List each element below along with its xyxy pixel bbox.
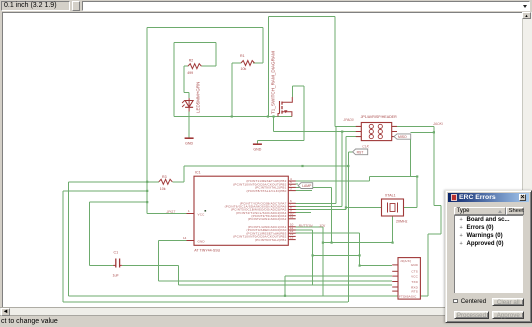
svg-text:499: 499 — [187, 71, 193, 75]
svg-text:R3: R3 — [162, 175, 167, 179]
svg-text:JPGT: JPGT — [166, 210, 177, 214]
svg-text:T1_SWITCH_RAM_DIAGRAM: T1_SWITCH_RAM_DIAGRAM — [271, 51, 276, 114]
svg-text:R1: R1 — [240, 54, 245, 58]
svg-text:(PCINT8/XTAL1/CLKI)PB0: (PCINT8/XTAL1/CLKI)PB0 — [246, 189, 286, 193]
svg-text:LAMP: LAMP — [302, 184, 312, 188]
svg-text:LED5MM+GRN: LED5MM+GRN — [196, 82, 201, 113]
svg-text:(PCINT2/AIN1/ADC2)PA2: (PCINT2/AIN1/ADC2)PA2 — [248, 217, 287, 221]
svg-text:RST: RST — [357, 150, 364, 154]
svg-text:11: 11 — [290, 215, 293, 219]
svg-text:1uF: 1uF — [113, 274, 120, 278]
svg-text:BUTTON: BUTTON — [299, 224, 313, 228]
svg-text:RTS: RTS — [411, 289, 418, 293]
svg-text:JAOKI: JAOKI — [432, 122, 443, 126]
svg-text:FTDIBASIC: FTDIBASIC — [399, 295, 417, 299]
svg-text:GND: GND — [411, 263, 419, 267]
svg-text:(PCINT9/XTAL2)PB1: (PCINT9/XTAL2)PB1 — [255, 238, 287, 242]
svg-text:TXD: TXD — [411, 280, 418, 284]
svg-text:GND: GND — [253, 148, 261, 152]
svg-text:CTS: CTS — [411, 270, 418, 274]
svg-text:13: 13 — [290, 235, 294, 239]
svg-text:JP1/AVRISP/HEADER: JP1/AVRISP/HEADER — [361, 115, 397, 119]
svg-text:AT TINY44-SSU: AT TINY44-SSU — [194, 249, 220, 253]
svg-text:CLK: CLK — [362, 145, 369, 149]
svg-text:MISO: MISO — [398, 135, 407, 139]
svg-text:VCC: VCC — [411, 274, 419, 278]
svg-text:JPAD0: JPAD0 — [342, 118, 353, 122]
svg-text:J3[A/K]: J3[A/K] — [400, 259, 411, 263]
svg-text:C1: C1 — [114, 251, 119, 255]
svg-text:GND: GND — [185, 142, 193, 146]
svg-text:20MHz: 20MHz — [396, 220, 408, 224]
svg-text:1: 1 — [188, 209, 190, 213]
svg-text:10k: 10k — [160, 187, 166, 191]
svg-text:JCK: JCK — [318, 224, 326, 228]
svg-text:10k: 10k — [241, 67, 247, 71]
svg-text:14: 14 — [183, 236, 187, 240]
svg-text:VCC: VCC — [198, 213, 206, 217]
svg-text:R2: R2 — [189, 58, 194, 62]
svg-text:GND: GND — [198, 239, 206, 243]
svg-text:XTAL1: XTAL1 — [385, 194, 396, 198]
svg-text:IC1: IC1 — [195, 171, 201, 175]
